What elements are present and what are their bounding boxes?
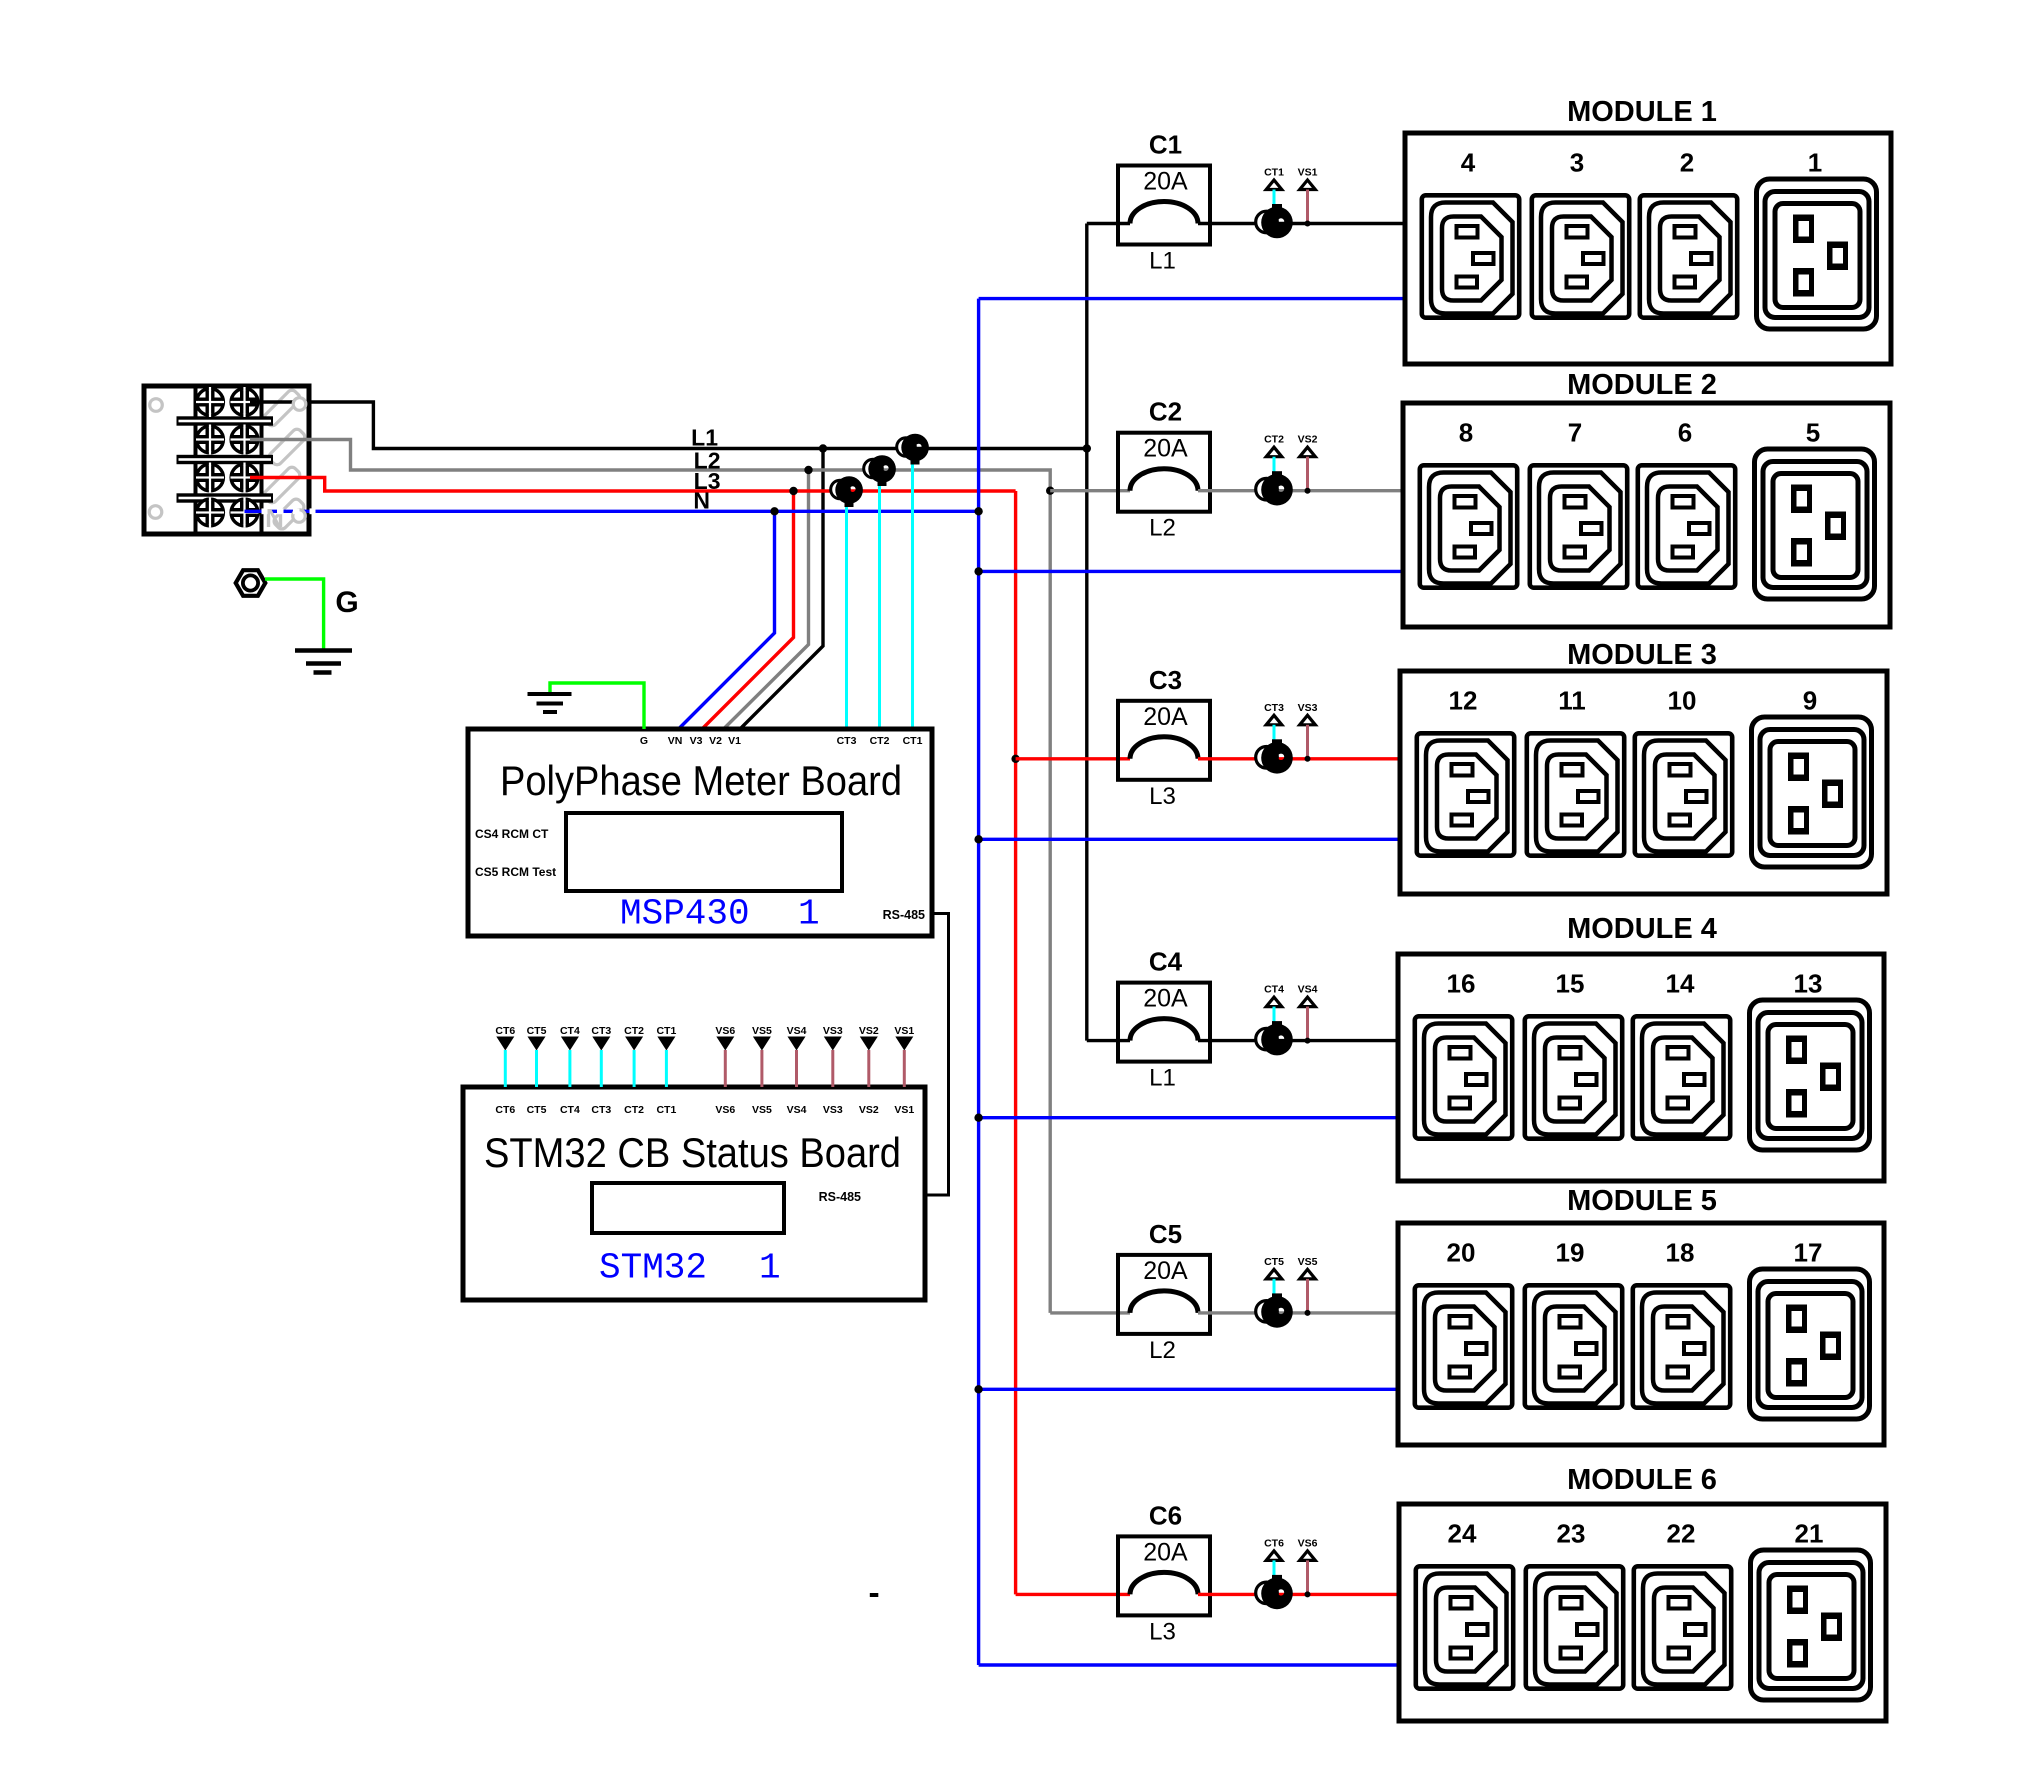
svg-text:PolyPhase Meter Board: PolyPhase Meter Board: [500, 757, 902, 804]
wire L2 feed into breaker C2: [1050, 489, 1130, 492]
outlet 2 IEC C13 receptacle: [1640, 195, 1737, 317]
svg-text:MODULE 2: MODULE 2: [1567, 369, 1717, 401]
voltage sense VS3 tap arrow and label: [1298, 702, 1318, 762]
terminal screw: [196, 387, 224, 417]
meter board display window: [566, 813, 842, 891]
svg-text:7: 7: [1568, 418, 1582, 448]
meter board title: [500, 757, 902, 804]
label CS5 RCM Test: [475, 865, 556, 879]
off-page connector CT5 into STM32: [527, 1025, 547, 1087]
svg-text:VS6: VS6: [1298, 1537, 1318, 1549]
outlet 20 IEC C13 receptacle: [1415, 1285, 1512, 1407]
svg-text:L1: L1: [1149, 1065, 1176, 1092]
terminal block mounting hole: [293, 510, 306, 523]
svg-text:C5: C5: [1149, 1219, 1182, 1249]
terminal screw: [196, 425, 224, 455]
wire N branch to module 1: [979, 297, 1405, 300]
svg-text:20: 20: [1447, 1238, 1476, 1268]
net label L1: [691, 425, 718, 451]
svg-text:VS5: VS5: [1298, 1256, 1318, 1268]
svg-text:L1: L1: [1149, 248, 1176, 275]
svg-text:18: 18: [1666, 1238, 1695, 1268]
current transformer CT2 toroid on feeder: [864, 455, 896, 486]
svg-text:21: 21: [1795, 1519, 1824, 1549]
svg-text:CT1: CT1: [656, 1104, 676, 1116]
module 2 title: [1567, 369, 1717, 401]
wire L2 vertical bus to C5: [1048, 491, 1051, 1313]
module 5 enclosure box: [1398, 1223, 1884, 1445]
svg-text:VS3: VS3: [823, 1025, 843, 1037]
node L3 bus tee at C3: [1011, 755, 1019, 763]
wire N branch to module 5: [979, 1388, 1398, 1391]
svg-text:CT4: CT4: [560, 1025, 580, 1037]
circuit breaker C4 20A: [1118, 947, 1210, 1092]
meter board RS-485 label: [883, 908, 925, 922]
wire L3 vertical bus to C3 and C6: [1014, 491, 1017, 1594]
current transformer CT3 sense arrow and label: [1264, 702, 1284, 741]
current transformer CT4 toroid on wire: [1256, 1021, 1293, 1055]
outlet 11 IEC C13 receptacle: [1527, 733, 1624, 855]
node V1 tap: [819, 444, 827, 452]
svg-text:L2: L2: [1149, 515, 1176, 542]
svg-text:MODULE 3: MODULE 3: [1567, 639, 1717, 671]
svg-text:VS2: VS2: [859, 1025, 879, 1037]
svg-text:VS5: VS5: [752, 1104, 772, 1116]
svg-text:CT3: CT3: [837, 735, 857, 747]
svg-text:CT2: CT2: [624, 1104, 644, 1116]
outlet number 24 label: [1448, 1519, 1477, 1549]
svg-text:VS1: VS1: [1298, 167, 1318, 179]
wire L2 feed into breaker C5: [1050, 1311, 1130, 1314]
svg-text:9: 9: [1803, 686, 1817, 716]
svg-text:20A: 20A: [1143, 985, 1188, 1013]
svg-text:CT2: CT2: [624, 1025, 644, 1037]
svg-text:24: 24: [1448, 1519, 1477, 1549]
circuit breaker C2 20A: [1118, 397, 1210, 542]
wire from breaker C2 to module 2: [1198, 489, 1403, 492]
svg-text:2: 2: [1680, 148, 1694, 178]
wire L1 feed into breaker C1: [1087, 222, 1130, 225]
off-page connector CT3 into STM32: [591, 1025, 611, 1087]
svg-text:CT3: CT3: [1264, 702, 1284, 714]
svg-text:VS1: VS1: [894, 1025, 914, 1037]
svg-text:8: 8: [1459, 418, 1473, 448]
outlet number 15 label: [1556, 969, 1585, 999]
current transformer CT1 toroid on wire: [1256, 204, 1293, 238]
svg-text:11: 11: [1558, 686, 1586, 716]
svg-text:17: 17: [1794, 1238, 1823, 1268]
terminal screw: [196, 463, 224, 493]
outlet number 4 label: [1461, 148, 1476, 178]
wire from breaker C3 to module 3: [1198, 757, 1400, 760]
outlet number 8 label: [1459, 418, 1473, 448]
circuit breaker C1 20A: [1118, 130, 1210, 275]
module 4 title: [1567, 913, 1717, 945]
wire N branch to module 6: [979, 1663, 1399, 1666]
off-page connector VS5 into STM32: [752, 1025, 772, 1087]
wire N from terminal block: [245, 510, 979, 513]
outlet number 9 label: [1803, 686, 1817, 716]
wire N branch to module 3: [979, 838, 1400, 841]
terminal block mounting hole: [293, 398, 306, 411]
voltage sense VS4 tap arrow and label: [1298, 984, 1318, 1044]
outlet 4 IEC C13 receptacle: [1422, 195, 1519, 317]
outlet 14 IEC C13 receptacle: [1633, 1016, 1730, 1138]
outlet 22 IEC C13 receptacle: [1634, 1566, 1731, 1688]
svg-text:VS5: VS5: [752, 1025, 772, 1037]
svg-text:14: 14: [1666, 969, 1695, 999]
outlet number 23 label: [1557, 1519, 1586, 1549]
svg-text:20A: 20A: [1143, 1257, 1188, 1285]
PolyPhase Meter Board outline: [468, 729, 932, 936]
off-page connector CT6 into STM32: [495, 1025, 515, 1087]
outlet 8 IEC C13 receptacle: [1420, 465, 1517, 587]
svg-text:STM32 CB Status Board: STM32 CB Status Board: [484, 1129, 901, 1176]
chassis ground stud (hex nut): [236, 570, 266, 596]
outlet 1 IEC C19 receptacle: [1757, 179, 1877, 329]
svg-text:C6: C6: [1149, 1500, 1182, 1530]
outlet number 21 label: [1795, 1519, 1824, 1549]
svg-text:CS4 RCM CT: CS4 RCM CT: [475, 827, 549, 841]
svg-text:L3: L3: [1149, 783, 1176, 810]
svg-text:19: 19: [1556, 1238, 1585, 1268]
svg-text:VS4: VS4: [787, 1104, 807, 1116]
node N bus tee: [974, 1114, 982, 1122]
node V3 tap: [789, 487, 797, 495]
svg-text:C2: C2: [1149, 397, 1182, 427]
meter board earth symbol: [528, 694, 572, 712]
current transformer CT4 sense arrow and label: [1264, 984, 1284, 1023]
wire from breaker C4 to module 4: [1198, 1039, 1398, 1042]
outlet number 1 label: [1808, 148, 1822, 178]
node VN tap: [770, 507, 778, 515]
svg-text:15: 15: [1556, 969, 1585, 999]
svg-text:10: 10: [1668, 686, 1697, 716]
svg-text:N: N: [265, 503, 284, 533]
wire L1 from terminal block: [250, 402, 1087, 449]
label MSP430 1 (blue): [620, 894, 820, 935]
voltage sense VS2 tap arrow and label: [1298, 434, 1318, 494]
STM32 RS-485 label: [819, 1190, 861, 1204]
off-page connector VS2 into STM32: [859, 1025, 879, 1087]
terminal screw: [231, 387, 259, 417]
terminal block mounting hole: [150, 399, 163, 412]
outlet number 14 label: [1666, 969, 1695, 999]
svg-text:CT1: CT1: [1264, 167, 1284, 179]
terminal screw: [196, 498, 224, 528]
off-page connector CT4 into STM32: [560, 1025, 580, 1087]
off-page connector VS1 into STM32: [894, 1025, 914, 1087]
svg-text:23: 23: [1557, 1519, 1586, 1549]
voltage sense VS1 tap arrow and label: [1298, 167, 1318, 227]
svg-text:13: 13: [1794, 969, 1823, 999]
wire L1 feed into breaker C4: [1087, 1039, 1130, 1042]
wire N vertical bus: [977, 299, 980, 1665]
outlet 16 IEC C13 receptacle: [1415, 1016, 1512, 1138]
circuit breaker C5 20A: [1118, 1219, 1210, 1364]
node N input tee: [974, 507, 982, 515]
terminal screw: [231, 463, 259, 493]
svg-text:VS1: VS1: [894, 1104, 914, 1116]
svg-text:16: 16: [1447, 969, 1476, 999]
wire from breaker C5 to module 5: [1198, 1311, 1398, 1314]
outlet 6 IEC C13 receptacle: [1638, 465, 1735, 587]
wire from breaker C6 to module 6: [1198, 1593, 1399, 1596]
current transformer CT2 sense arrow and label: [1264, 434, 1284, 473]
svg-text:RS-485: RS-485: [883, 908, 925, 922]
wire L3 feed into breaker C6: [1016, 1593, 1130, 1596]
net label L2: [694, 448, 721, 474]
current transformer CT2 toroid on wire: [1256, 471, 1293, 505]
svg-text:CS5 RCM Test: CS5 RCM Test: [475, 865, 556, 879]
wire from breaker C1 to module 1: [1198, 222, 1405, 225]
svg-text:CT2: CT2: [870, 735, 890, 747]
svg-text:C3: C3: [1149, 665, 1182, 695]
svg-text:STM32: STM32: [599, 1248, 707, 1289]
svg-text:4: 4: [1461, 148, 1476, 178]
svg-text:1: 1: [798, 894, 820, 935]
outlet 21 IEC C19 receptacle: [1751, 1550, 1871, 1700]
svg-text:CT1: CT1: [903, 735, 923, 747]
svg-text:20A: 20A: [1143, 703, 1188, 731]
meter board ground wire: [550, 683, 644, 729]
net label N: [693, 488, 710, 514]
label G: [335, 586, 358, 619]
terminal screw: [231, 498, 259, 528]
off-page connector VS3 into STM32: [823, 1025, 843, 1087]
svg-text:5: 5: [1806, 418, 1820, 448]
svg-text:20A: 20A: [1143, 168, 1188, 196]
wire N branch to module 2: [979, 570, 1403, 573]
svg-text:1: 1: [759, 1248, 781, 1289]
outlet number 2 label: [1680, 148, 1694, 178]
circuit breaker C3 20A: [1118, 665, 1210, 810]
outlet number 6 label: [1678, 418, 1692, 448]
outlet 5 IEC C19 receptacle: [1755, 449, 1875, 599]
svg-text:MODULE 1: MODULE 1: [1567, 96, 1717, 128]
STM32 CB Status Board outline: [463, 1087, 925, 1300]
outlet 7 IEC C13 receptacle: [1530, 465, 1627, 587]
svg-text:MODULE 4: MODULE 4: [1567, 913, 1717, 945]
wire L3 from terminal block: [250, 478, 1016, 492]
node N bus tee: [974, 835, 982, 843]
svg-text:6: 6: [1678, 418, 1692, 448]
current transformer CT5 sense arrow and label: [1264, 1256, 1284, 1295]
svg-text:VS6: VS6: [715, 1025, 735, 1037]
STM32 board title: [484, 1129, 901, 1176]
svg-text:CT6: CT6: [1264, 1537, 1284, 1549]
svg-text:G: G: [640, 735, 648, 747]
wire CT3 signal to meter board: [845, 503, 848, 730]
svg-text:CT5: CT5: [1264, 1256, 1284, 1268]
node V2 tap: [804, 466, 812, 474]
svg-text:3: 3: [1570, 148, 1584, 178]
outlet number 10 label: [1668, 686, 1697, 716]
svg-text:VS2: VS2: [1298, 434, 1318, 446]
svg-text:CT5: CT5: [527, 1104, 547, 1116]
current transformer CT3 toroid on wire: [1256, 739, 1293, 773]
outlet number 18 label: [1666, 1238, 1695, 1268]
outlet number 19 label: [1556, 1238, 1585, 1268]
svg-text:VN: VN: [668, 735, 683, 747]
outlet 3 IEC C13 receptacle: [1532, 195, 1629, 317]
outlet 15 IEC C13 receptacle: [1525, 1016, 1622, 1138]
outlet number 5 label: [1806, 418, 1820, 448]
ground wire (green): [265, 579, 324, 652]
module 6 title: [1567, 1464, 1717, 1496]
svg-text:RS-485: RS-485: [819, 1190, 861, 1204]
module 3 title: [1567, 639, 1717, 671]
svg-text:CT6: CT6: [495, 1025, 515, 1037]
svg-text:20A: 20A: [1143, 435, 1188, 463]
RS-485 wire between boards: [925, 914, 949, 1196]
outlet number 22 label: [1667, 1519, 1696, 1549]
outlet number 7 label: [1568, 418, 1582, 448]
wire L3 feed into breaker C3: [1016, 757, 1130, 760]
outlet 10 IEC C13 receptacle: [1635, 733, 1732, 855]
wire L1 vertical bus to C1 and C4: [1085, 224, 1088, 1041]
earth ground symbol: [295, 651, 352, 673]
outlet number 20 label: [1447, 1238, 1476, 1268]
meter board pin labels: [640, 735, 923, 747]
label CS4 RCM CT: [475, 827, 549, 841]
current transformer CT6 toroid on wire: [1256, 1575, 1293, 1609]
terminal block N watermark: [265, 503, 284, 533]
STM32 display window: [592, 1183, 784, 1233]
outlet 9 IEC C19 receptacle: [1752, 717, 1872, 867]
outlet 13 IEC C19 receptacle: [1750, 1000, 1870, 1150]
outlet 18 IEC C13 receptacle: [1633, 1285, 1730, 1407]
node N bus tee: [974, 567, 982, 575]
current transformer CT6 sense arrow and label: [1264, 1537, 1284, 1576]
svg-text:VS6: VS6: [715, 1104, 735, 1116]
wire V2 tap to meter board: [724, 470, 809, 729]
circuit breaker C6 20A: [1118, 1500, 1210, 1645]
svg-text:N: N: [693, 488, 710, 514]
svg-text:12: 12: [1449, 686, 1478, 716]
wire CT1 signal to meter board: [911, 460, 914, 729]
svg-text:CT4: CT4: [560, 1104, 580, 1116]
svg-text:20A: 20A: [1143, 1538, 1188, 1566]
svg-text:22: 22: [1667, 1519, 1696, 1549]
module 4 enclosure box: [1398, 954, 1884, 1181]
wire V1 tap to meter board: [740, 449, 823, 730]
svg-text:V2: V2: [709, 735, 722, 747]
module 1 title: [1567, 96, 1717, 128]
module 2 enclosure box: [1403, 403, 1890, 627]
node L2 bus tee: [1046, 487, 1054, 495]
outlet number 11 label: [1558, 686, 1586, 716]
outlet 19 IEC C13 receptacle: [1525, 1285, 1622, 1407]
current transformer CT3 toroid on feeder: [831, 476, 863, 507]
svg-text:1: 1: [1808, 148, 1822, 178]
current transformer CT1 sense arrow and label: [1264, 167, 1284, 206]
module 1 enclosure box: [1405, 133, 1891, 364]
outlet 12 IEC C13 receptacle: [1417, 733, 1514, 855]
off-page connector CT2 into STM32: [624, 1025, 644, 1087]
svg-text:CT4: CT4: [1264, 984, 1284, 996]
voltage sense VS5 tap arrow and label: [1298, 1256, 1318, 1316]
svg-text:MSP430: MSP430: [620, 894, 750, 935]
wire VN tap to meter board: [679, 511, 775, 729]
net label L3: [694, 468, 721, 494]
svg-text:CT6: CT6: [495, 1104, 515, 1116]
outlet 23 IEC C13 receptacle: [1526, 1566, 1623, 1688]
svg-text:C4: C4: [1149, 947, 1183, 977]
node L1 bus tee: [1083, 444, 1091, 452]
module 3 enclosure box: [1400, 671, 1887, 894]
svg-text:VS3: VS3: [1298, 702, 1318, 714]
outlet number 16 label: [1447, 969, 1476, 999]
svg-text:CT2: CT2: [1264, 434, 1284, 446]
svg-text:CT1: CT1: [656, 1025, 676, 1037]
svg-text:VS4: VS4: [1298, 984, 1318, 996]
svg-text:L2: L2: [1149, 1337, 1176, 1364]
outlet number 12 label: [1449, 686, 1478, 716]
N wire dash gaps: [262, 508, 316, 514]
current transformer CT5 toroid on wire: [1256, 1293, 1293, 1327]
stray dash mark: [870, 1593, 879, 1597]
terminal block mounting hole: [149, 506, 162, 519]
current transformer CT1 toroid on feeder: [897, 434, 929, 465]
svg-text:C1: C1: [1149, 130, 1182, 160]
off-page connector CT1 into STM32: [656, 1025, 676, 1087]
terminal screw: [231, 425, 259, 455]
label STM32 1 (blue): [599, 1248, 781, 1289]
svg-text:VS2: VS2: [859, 1104, 879, 1116]
STM32 inner pin labels VS: [715, 1104, 914, 1116]
node N bus tee: [974, 1385, 982, 1393]
outlet 17 IEC C19 receptacle: [1750, 1269, 1870, 1419]
outlet number 3 label: [1570, 148, 1584, 178]
terminal block TB1: [144, 386, 309, 534]
svg-text:G: G: [335, 586, 358, 619]
svg-text:V3: V3: [690, 735, 703, 747]
off-page connector VS4 into STM32: [787, 1025, 807, 1087]
wire N branch to module 4: [979, 1116, 1398, 1119]
svg-text:CT3: CT3: [591, 1025, 611, 1037]
wire L2 from terminal block: [250, 440, 1050, 491]
svg-text:V1: V1: [728, 735, 741, 747]
svg-text:L3: L3: [1149, 1618, 1176, 1645]
svg-text:VS3: VS3: [823, 1104, 843, 1116]
svg-text:MODULE 6: MODULE 6: [1567, 1464, 1717, 1496]
outlet 24 IEC C13 receptacle: [1416, 1566, 1513, 1688]
off-page connector VS6 into STM32: [715, 1025, 735, 1087]
STM32 inner pin labels CT: [495, 1104, 676, 1116]
svg-text:CT5: CT5: [527, 1025, 547, 1037]
module 5 title: [1567, 1185, 1717, 1217]
wire CT2 signal to meter board: [878, 482, 881, 730]
svg-text:MODULE 5: MODULE 5: [1567, 1185, 1717, 1217]
module 6 enclosure box: [1399, 1504, 1886, 1721]
svg-text:CT3: CT3: [591, 1104, 611, 1116]
voltage sense VS6 tap arrow and label: [1298, 1537, 1318, 1597]
svg-text:VS4: VS4: [787, 1025, 807, 1037]
outlet number 13 label: [1794, 969, 1823, 999]
wire V3 tap to meter board: [702, 491, 794, 729]
outlet number 17 label: [1794, 1238, 1823, 1268]
